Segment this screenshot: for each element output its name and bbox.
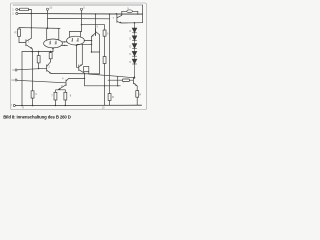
- transistor T1: [25, 40, 27, 46]
- wire terminal 9 to rail2: [132, 11, 137, 14]
- node feedback tap: [117, 85, 118, 86]
- node at R1/rail2: [31, 13, 33, 15]
- diode D4: [132, 51, 137, 56]
- terminal 2: [16, 12, 18, 14]
- wire R6 to R6b: [104, 36, 106, 56]
- node W2 at terminal5 column: [81, 24, 82, 25]
- wire y52 link: [92, 51, 100, 53]
- terminal 1: [16, 8, 18, 10]
- ground rail (bottom): [16, 104, 142, 106]
- resistor R12 (vertical, output emitter): [136, 91, 139, 98]
- wire y52 down to mid bus: [99, 52, 101, 74]
- node W1 at rail2 column: [109, 13, 111, 15]
- diode D2: [132, 36, 137, 41]
- wire collector column T1: [30, 14, 32, 39]
- current mirror Q-right (cup): [67, 36, 85, 45]
- resistor R6 (vertical mid-right): [104, 25, 106, 30]
- svg-text:Bild 8: Innenschaltung des B 2: Bild 8: Innenschaltung des B 260 D: [3, 114, 71, 119]
- svg-text:D: D: [129, 60, 131, 64]
- wire R4 to T2 collector: [50, 59, 52, 62]
- diode D1: [132, 28, 137, 33]
- tiny reference labels: [11, 5, 141, 109]
- terminal 9 (top right ellipse): [127, 10, 133, 13]
- node T5 leg on y52 wire: [91, 51, 92, 52]
- wire mid bus: [51, 73, 100, 75]
- transistor T6 (top right): [116, 13, 118, 15]
- wire W1: [48, 18, 110, 20]
- node left column rail: [21, 105, 23, 107]
- node R8 rail: [65, 105, 67, 107]
- wire output base: [85, 73, 121, 86]
- node R7 rail: [55, 105, 57, 107]
- wire column rail2 to R10: [109, 14, 111, 94]
- node cup-right bottom: [76, 44, 78, 46]
- compensation box: [84, 67, 89, 72]
- node R4 top: [50, 51, 52, 53]
- wire R2 to base T1: [19, 36, 26, 42]
- wire terminal 11 to T3 base: [17, 80, 66, 83]
- resistor R10 (vertical): [108, 94, 111, 101]
- svg-text:D: D: [129, 29, 131, 33]
- node chain bottom / T7 collector: [134, 77, 136, 79]
- terminal 10 (top mid-left): [46, 8, 48, 10]
- terminal 5 (top middle): [80, 8, 82, 10]
- node R9 rail: [32, 105, 34, 107]
- diode D5: [132, 59, 137, 64]
- wire terminal 3 to T2 base: [17, 68, 46, 70]
- resistor R6b (vertical): [103, 57, 106, 64]
- wire emitter bus left: [22, 51, 53, 53]
- wire R3 to base wire: [38, 63, 40, 69]
- wire T3 collector to output column: [69, 77, 85, 79]
- wire T6 emitter to diode chain: [122, 22, 143, 24]
- resistor R9 (vertical left-bottom): [31, 91, 34, 98]
- node rail2 feed T5: [95, 13, 97, 15]
- node on mirror rail: [47, 27, 49, 29]
- wire R6b down to ground rail: [104, 64, 106, 106]
- node rail4/T1 column: [31, 27, 32, 28]
- svg-text:D: D: [129, 52, 131, 56]
- svg-text:D: D: [129, 37, 131, 41]
- resistor R11 (output base, horizontal): [108, 79, 122, 81]
- svg-text:R: R: [112, 95, 114, 99]
- V+ rail (top, light): [13, 4, 143, 6]
- wire cup link upper: [62, 41, 67, 43]
- wire cup-right upper link to T5 leg: [84, 40, 92, 42]
- wire feedback to chain node: [118, 76, 135, 78]
- wire T5 collector leg: [99, 35, 101, 52]
- current mirror Q-left (cup): [44, 39, 63, 48]
- wire resistor to rail2: [29, 9, 32, 13]
- wire terminal 10 down: [47, 11, 49, 29]
- node collector tap: [84, 78, 85, 79]
- diode chain D1-D5: [132, 23, 137, 78]
- resistor R7 (vertical): [54, 90, 56, 93]
- wire T5 emitter leg: [91, 36, 93, 52]
- terminal 7 (bottom left): [13, 104, 15, 106]
- svg-text:R1: R1: [15, 31, 19, 35]
- svg-text:D: D: [129, 44, 131, 48]
- wire cup-right lower link: [77, 43, 92, 45]
- wire collector to terminal 9: [122, 10, 127, 12]
- node cup-left bottom: [52, 48, 54, 50]
- diode D3: [132, 44, 137, 49]
- wire rail2 to T5 base: [95, 14, 97, 29]
- transistor T7 (output): [133, 77, 135, 83]
- transistor T2: [46, 65, 48, 72]
- transistor T4 (pnp): [78, 65, 80, 71]
- wire terminal 5 down to mirror bar: [81, 11, 83, 32]
- node R3 top: [38, 51, 40, 53]
- wire cup link lower: [62, 44, 68, 46]
- transistor T5: [95, 29, 97, 36]
- wire cup-right bottom to T4 base: [77, 45, 79, 67]
- emitter bracket: [56, 89, 65, 91]
- resistor R1 (input, horizontal): [18, 8, 19, 10]
- terminal 11 (left, lower mid): [15, 79, 17, 81]
- terminal 3 (left, mid): [15, 69, 17, 71]
- svg-text:R: R: [139, 93, 141, 97]
- resistor R3 (vertical): [38, 52, 40, 56]
- wire T7 emitter to R12: [136, 86, 138, 91]
- node R6 on output base wire: [104, 85, 105, 86]
- wire T4 emitter column up: [81, 44, 83, 64]
- resistor R8 (vertical): [64, 90, 66, 93]
- node T1 emitter: [32, 51, 34, 53]
- wire left bias column: [21, 52, 23, 106]
- transistor T3: [65, 80, 67, 86]
- node chain top: [134, 22, 136, 24]
- rail 2 (main top wire): [18, 13, 142, 16]
- wire rail2 end down: [142, 5, 144, 23]
- wire mirror rail: [19, 27, 60, 30]
- wire W2: [82, 24, 105, 26]
- resistor R2 (vertical, left): [18, 28, 20, 29]
- wire comp box to feedback: [89, 72, 118, 86]
- border frame: [11, 3, 147, 110]
- node R3 base wire: [38, 68, 39, 69]
- mirror bar: [70, 31, 82, 33]
- resistor R4 (vertical): [50, 51, 52, 54]
- wire T1 emitter down to R9: [32, 52, 34, 91]
